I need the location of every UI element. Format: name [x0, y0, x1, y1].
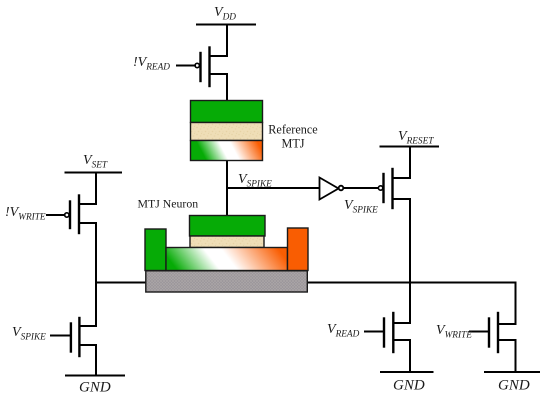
ground bar left — [66, 375, 124, 377]
svg-text:GND: GND — [79, 380, 111, 396]
wire node V_SPIKE to inverter — [227, 187, 319, 189]
svg-text:MTJ Neuron: MTJ Neuron — [138, 197, 199, 211]
wire V_SET rail to M3 drain — [80, 173, 96, 205]
MTJ Neuron stack — [145, 216, 308, 293]
transistor M6 (V_WRITE NMOS) — [470, 313, 498, 352]
V_RESET rail — [381, 146, 439, 148]
V_SET rail — [66, 172, 122, 174]
transistor M4 (V_SPIKE NMOS) — [51, 318, 79, 356]
wire M4 source to GND — [80, 345, 96, 376]
transistor M2 (V_RESET PMOS) — [378, 169, 392, 208]
reference MTJ free layer (green) — [191, 101, 263, 123]
svg-text:!VREAD: !VREAD — [133, 55, 170, 73]
wire M1 source to Reference MTJ — [211, 74, 228, 101]
transistor M1 (!V_READ PMOS) — [177, 48, 210, 87]
ground bar right — [485, 371, 539, 373]
VDD rail — [197, 24, 255, 26]
neuron bottom gray electrode — [146, 271, 307, 292]
ground bar middle — [381, 371, 433, 373]
wire inverter to M2 gate — [344, 187, 378, 189]
wire M3 source down through bus to M4 drain — [80, 223, 96, 326]
svg-text:VRESET: VRESET — [398, 129, 434, 147]
svg-text:Reference: Reference — [268, 123, 317, 137]
Reference MTJ stack — [191, 101, 263, 161]
reference MTJ barrier (tan) — [191, 123, 263, 141]
svg-text:VSPIKE: VSPIKE — [238, 172, 272, 190]
transistor M3 (!V_WRITE PMOS) — [47, 196, 79, 234]
transistor M5 (V_READ NMOS) — [365, 313, 393, 352]
neuron right orange contact — [288, 228, 309, 271]
svg-text:VWRITE: VWRITE — [436, 323, 472, 341]
svg-text:GND: GND — [498, 378, 530, 394]
wire M2 source down to right bus — [394, 199, 411, 323]
svg-text:VSPIKE: VSPIKE — [344, 198, 378, 216]
svg-text:MTJ: MTJ — [281, 137, 304, 151]
neuron gradient free layer — [166, 248, 288, 271]
svg-text:!VWRITE: !VWRITE — [5, 205, 46, 223]
wire M5 source to GND — [394, 340, 410, 372]
inverter U1 — [320, 178, 344, 200]
wire right bus to M6 drain — [499, 283, 516, 325]
neuron top green electrode — [190, 216, 266, 237]
neuron tan barrier — [190, 236, 264, 248]
svg-text:GND: GND — [393, 378, 425, 394]
wire Reference MTJ to node V_SPIKE and neuron — [226, 161, 228, 216]
wire VDD to M1 drain — [211, 25, 228, 57]
svg-text:VDD: VDD — [214, 5, 236, 23]
svg-text:VREAD: VREAD — [327, 322, 360, 340]
left bus wire — [96, 282, 146, 284]
wire M6 source to GND — [499, 340, 516, 372]
right bus wire — [307, 282, 516, 284]
wire V_RESET rail to M2 — [394, 147, 411, 179]
svg-text:VSET: VSET — [83, 153, 108, 171]
reference MTJ gradient layer — [191, 141, 263, 161]
svg-text:VSPIKE: VSPIKE — [12, 325, 46, 343]
neuron left green contact — [145, 229, 166, 271]
wire right bus to M5 drain — [409, 283, 411, 324]
